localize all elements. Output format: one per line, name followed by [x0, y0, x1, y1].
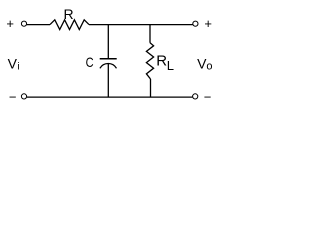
svg-text:i: i	[17, 62, 19, 73]
svg-text:+: +	[204, 16, 212, 31]
svg-text:C: C	[86, 54, 94, 70]
svg-text:o: o	[206, 61, 212, 73]
svg-text:+: +	[6, 16, 14, 31]
svg-text:R: R	[64, 6, 74, 22]
svg-text:−: −	[204, 90, 212, 105]
svg-text:V: V	[8, 55, 18, 71]
svg-text:L: L	[167, 58, 174, 73]
svg-text:−: −	[9, 90, 17, 105]
svg-text:R: R	[156, 53, 167, 70]
